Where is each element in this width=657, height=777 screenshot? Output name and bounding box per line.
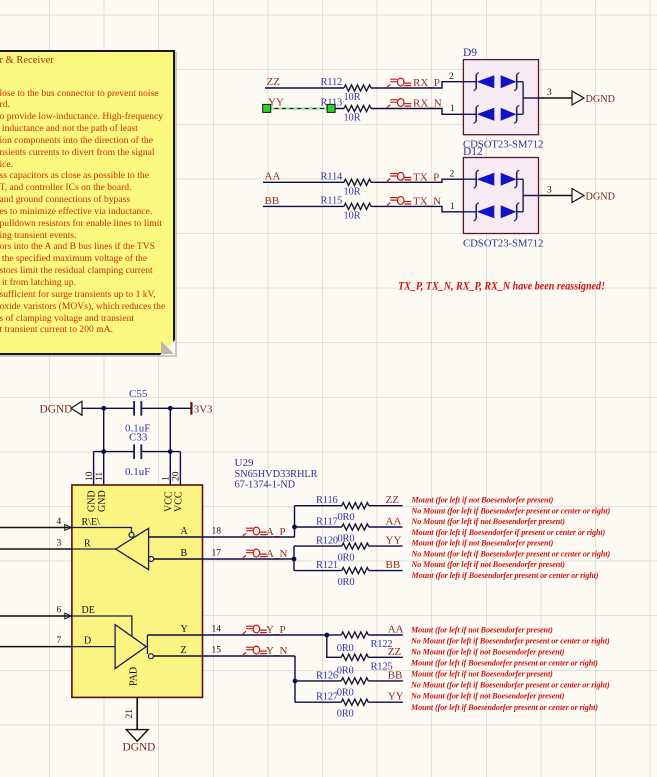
svg-text:AA: AA <box>388 624 404 636</box>
svg-text:21: 21 <box>125 709 135 719</box>
wire to R121 <box>294 570 342 572</box>
svg-text:B: B <box>181 548 188 559</box>
svg-text:R: R <box>84 539 91 550</box>
svg-text:Y: Y <box>181 624 188 635</box>
svg-text:R116: R116 <box>316 495 338 506</box>
svg-text:VCC: VCC <box>174 491 185 512</box>
wire C55 to 3V3 <box>141 407 191 409</box>
svg-text:DGND: DGND <box>40 404 73 416</box>
TVS diode array D12 CDSOT23-SM712 <box>463 146 543 250</box>
resistor R126 <box>316 670 368 698</box>
wire pin 3 stub <box>0 548 72 550</box>
diff-pair directive (TX_P) <box>387 172 411 181</box>
wire R113 to D9 pin 1 <box>371 109 463 115</box>
svg-text:TX_N: TX_N <box>413 195 441 207</box>
wire pin 20 vertical <box>179 452 181 485</box>
svg-text:CDSOT23-SM712: CDSOT23-SM712 <box>463 238 543 250</box>
svg-text:No Mount (for left if Boesendo: No Mount (for left if Boesendorfer prese… <box>411 550 611 559</box>
power port DGND (D12) <box>572 189 615 203</box>
wire R116 to ZZ <box>369 505 403 507</box>
svg-text:R126: R126 <box>316 670 338 681</box>
svg-text:10R: 10R <box>344 92 361 103</box>
svg-text:A_N: A_N <box>266 548 287 560</box>
svg-text:SN65HVD33RHLR: SN65HVD33RHLR <box>235 469 318 480</box>
wire D9 pin 3 to DGND <box>539 97 573 99</box>
diff-pair directive (Y_N) <box>243 646 267 655</box>
resistor R112 <box>321 77 372 103</box>
wire pin 10 vertical <box>93 452 95 485</box>
input arrow pin 6 <box>65 613 72 619</box>
wire pin 4 stub <box>0 527 72 529</box>
junction Y_N/R126 <box>293 679 298 684</box>
svg-text:No Mount (for left if not Boes: No Mount (for left if not Boesendorfer p… <box>410 648 565 657</box>
svg-text:3: 3 <box>547 186 552 196</box>
svg-text:No Mount (for left if Boesendo: No Mount (for left if Boesendorfer prese… <box>410 637 610 646</box>
resistor R115 <box>321 195 372 221</box>
resistor R116 <box>316 495 369 523</box>
resistor R122 <box>337 632 393 654</box>
svg-text:R121: R121 <box>316 560 338 571</box>
diff-pair directive (Y_P) <box>243 625 267 634</box>
wire A_N riser <box>293 546 295 571</box>
svg-text:Mount (for left if not Boesend: Mount (for left if not Boesendorfer pres… <box>411 496 554 505</box>
resistor R114 <box>321 171 372 197</box>
svg-text:R127: R127 <box>316 692 338 703</box>
junction (C33 rail left) <box>101 449 106 454</box>
wire DGND to C55 <box>82 407 134 409</box>
wire D12 pin 3 to DGND <box>539 195 573 197</box>
wire C33 right <box>141 451 180 453</box>
wire C33 left <box>94 451 135 453</box>
svg-text:BB: BB <box>265 195 280 207</box>
svg-text:TX_P: TX_P <box>413 171 439 183</box>
svg-text:0R0: 0R0 <box>337 687 354 698</box>
svg-text:1: 1 <box>162 476 172 481</box>
svg-text:20: 20 <box>172 471 182 481</box>
svg-text:A: A <box>181 526 189 537</box>
svg-text:Y_P: Y_P <box>266 624 286 636</box>
svg-text:PAD: PAD <box>129 667 140 686</box>
svg-text:Y_N: Y_N <box>266 645 287 657</box>
svg-text:AA: AA <box>386 516 402 528</box>
svg-text:C55: C55 <box>129 388 148 400</box>
wire to R116 <box>295 505 342 507</box>
junction (pin 11 / C55 rail) <box>101 406 106 411</box>
power port DGND (top left) <box>40 401 83 415</box>
wire Y / Y_P <box>147 634 326 636</box>
junction Y_P/R125 <box>324 633 329 638</box>
svg-text:10R: 10R <box>344 210 361 221</box>
power port DGND (D9) <box>572 91 615 105</box>
svg-text:0.1uF: 0.1uF <box>125 466 150 478</box>
svg-text:DGND: DGND <box>586 191 615 202</box>
wire A_P riser <box>294 506 296 537</box>
wire R121 to BB <box>369 570 403 572</box>
wire pin 7 stub <box>0 646 72 648</box>
wire to R127 <box>295 701 341 703</box>
svg-text:3V3: 3V3 <box>194 403 213 415</box>
wire R117 to AA <box>369 526 403 528</box>
svg-text:C33: C33 <box>129 431 148 443</box>
svg-text:DGND: DGND <box>123 742 156 754</box>
TVS diode array D9 CDSOT23-SM712 <box>463 47 543 151</box>
svg-text:TX_P, TX_N, RX_P, RX_N have be: TX_P, TX_N, RX_P, RX_N have been reassig… <box>398 281 605 293</box>
svg-text:Mount (for left if not Boesend: Mount (for left if not Boesendorfer pres… <box>410 670 553 679</box>
wire pin 21 to ground <box>136 697 138 729</box>
svg-text:0R0: 0R0 <box>338 553 355 564</box>
capacitor C55 0.1uF <box>125 388 150 435</box>
svg-text:14: 14 <box>212 625 222 635</box>
svg-text:R115: R115 <box>321 195 343 206</box>
note: design guidelines text frame <box>0 50 175 356</box>
svg-text:1: 1 <box>450 202 455 212</box>
wire R114 to D12 pin 2 <box>371 179 463 182</box>
svg-text:3: 3 <box>57 539 62 549</box>
svg-text:DGND: DGND <box>586 94 615 105</box>
svg-text:1: 1 <box>450 104 455 114</box>
junction A_P/R117 <box>292 525 297 530</box>
svg-text:ZZ: ZZ <box>386 494 400 506</box>
svg-text:YY: YY <box>386 535 402 547</box>
svg-text:18: 18 <box>212 527 222 537</box>
svg-text:3: 3 <box>547 88 552 98</box>
svg-text:RX_N: RX_N <box>413 98 442 110</box>
svg-text:0R0: 0R0 <box>338 512 355 523</box>
wire pin 1 vertical <box>169 408 171 485</box>
wire R120 to YY <box>369 545 403 547</box>
svg-text:BB: BB <box>386 559 401 571</box>
svg-text:Mount (for left if Boesendorfe: Mount (for left if Boesendorfer present … <box>410 703 598 712</box>
IC U29 SN65HVD33RHLR body <box>72 485 203 697</box>
svg-text:R114: R114 <box>321 171 344 182</box>
svg-text:17: 17 <box>212 549 222 559</box>
wire R126 to BB <box>368 680 403 682</box>
svg-text:YY: YY <box>388 691 404 703</box>
wire YY to R113 <box>265 108 344 110</box>
wire R112 to D9 pin 2 <box>371 82 463 88</box>
svg-text:D12: D12 <box>463 146 483 158</box>
svg-text:11: 11 <box>95 472 105 481</box>
svg-text:U29: U29 <box>235 457 254 469</box>
junction (pin 1 / C55 rail) <box>168 406 173 411</box>
svg-text:D9: D9 <box>463 47 477 59</box>
svg-text:R117: R117 <box>316 517 338 528</box>
wire to R117 <box>295 526 342 528</box>
resistor R113 <box>321 98 372 124</box>
resistor R120 <box>316 536 369 564</box>
svg-text:BB: BB <box>388 669 403 681</box>
svg-text:Mount (for left if Boesendorfe: Mount (for left if Boesendorfer present … <box>411 571 599 580</box>
svg-text:Mount (for left if not Boesend: Mount (for left if not Boesendorfer pres… <box>411 539 554 548</box>
svg-text:0R0: 0R0 <box>337 709 354 720</box>
svg-text:No Mount (for left if Boesendo: No Mount (for left if Boesendorfer prese… <box>411 507 611 516</box>
svg-text:2: 2 <box>450 170 455 180</box>
svg-text:D: D <box>84 636 91 647</box>
power port 3V3 <box>191 402 212 415</box>
wire Y_N riser <box>294 656 296 702</box>
power port DGND (bottom) <box>123 730 156 754</box>
svg-text:10R: 10R <box>344 113 361 124</box>
svg-text:0R0: 0R0 <box>337 643 354 654</box>
svg-text:0R0: 0R0 <box>338 577 355 588</box>
svg-text:15: 15 <box>212 646 222 656</box>
wire to R126 <box>295 680 341 682</box>
driver buffer (D) <box>72 616 153 669</box>
svg-text:No Mount (for left if not Boes: No Mount (for left if not Boesendorfer p… <box>411 517 566 526</box>
svg-text:No Mount (for left if not Boes: No Mount (for left if not Boesendorfer p… <box>410 692 565 701</box>
svg-text:Mount (for left if Boesendorfe: Mount (for left if Boesendorfer present … <box>410 659 598 668</box>
svg-text:RX_P: RX_P <box>413 77 440 89</box>
svg-text:10: 10 <box>85 471 95 481</box>
svg-text:0R0: 0R0 <box>338 534 355 545</box>
resistor R125 <box>337 654 393 676</box>
wire riser to R125 <box>327 635 342 657</box>
svg-text:10R: 10R <box>344 186 361 197</box>
svg-text:Z: Z <box>181 645 187 656</box>
input arrow pin 4 <box>65 525 72 531</box>
wire A / A_P <box>149 536 295 538</box>
diff-pair directive (RX_N) <box>387 99 411 108</box>
svg-text:7: 7 <box>57 636 62 646</box>
svg-text:ZZ: ZZ <box>267 76 281 88</box>
wire R122 to AA <box>368 634 403 636</box>
wire Z / Y_N <box>153 655 295 657</box>
diff-pair directive (TX_N) <box>387 197 411 206</box>
svg-text:67-1374-1-ND: 67-1374-1-ND <box>235 479 296 490</box>
resistor R121 <box>316 560 369 588</box>
wire to R120 <box>294 545 342 547</box>
svg-text:0R0: 0R0 <box>337 665 354 676</box>
svg-text:2: 2 <box>449 72 454 82</box>
wire AA to R114 <box>263 181 344 183</box>
svg-text:6: 6 <box>57 606 62 616</box>
wire pin 11 vertical <box>103 408 105 485</box>
selection highlight: green dashed wire with handles <box>263 104 335 112</box>
svg-text:R\E\: R\E\ <box>82 517 101 528</box>
svg-text:DE: DE <box>82 605 95 616</box>
diff-pair directive (A_N) <box>243 549 267 558</box>
junction A_N/R120-R121 <box>292 557 297 562</box>
svg-text:Mount (for left if not Boesend: Mount (for left if not Boesendorfer pres… <box>410 625 553 634</box>
svg-text:AA: AA <box>265 171 281 183</box>
svg-text:A_P: A_P <box>266 526 286 538</box>
wire B / A_N <box>154 558 294 560</box>
wire R115 to D12 pin 1 <box>371 206 463 211</box>
svg-text:R112: R112 <box>321 77 343 88</box>
wire pin 6 stub <box>0 615 72 617</box>
wire R127 to YY <box>368 701 403 703</box>
wire R125 to ZZ <box>368 656 403 658</box>
diff-pair directive (RX_P) <box>387 78 411 87</box>
wire BB to R115 <box>263 205 344 207</box>
svg-text:ZZ: ZZ <box>388 646 402 658</box>
svg-text:Mount (for left if Boesendorfe: Mount (for left if Boesendorfer if prese… <box>411 528 606 537</box>
svg-text:No Mount (for left if Boesendo: No Mount (for left if Boesendorfer prese… <box>410 681 610 690</box>
svg-text:R120: R120 <box>316 536 338 547</box>
resistor R127 <box>316 692 368 720</box>
diff-pair directive (A_P) <box>243 527 267 536</box>
resistor R117 <box>316 517 369 545</box>
receiver buffer (R) <box>72 528 154 570</box>
junction (C33 rail right) <box>168 449 173 454</box>
wire ZZ to R112 <box>265 87 344 89</box>
wire Y_P to R122 <box>327 634 342 636</box>
svg-text:GND: GND <box>97 490 108 512</box>
svg-text:No Mount (for left if not Boes: No Mount (for left if not Boesendorfer p… <box>411 560 566 569</box>
capacitor C33 0.1uF <box>125 431 150 478</box>
svg-text:4: 4 <box>57 517 62 527</box>
